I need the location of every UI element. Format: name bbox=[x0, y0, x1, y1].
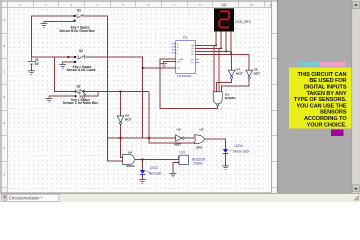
svg-text:Circuitsimulation *: Circuitsimulation * bbox=[9, 196, 43, 201]
svg-text:NOT: NOT bbox=[125, 117, 132, 121]
wire U1 output to U3 load bbox=[160, 59, 218, 108]
wire QA to display pin 1 bbox=[215, 32, 217, 46]
NAND gate U1 NAND4 bbox=[213, 92, 236, 106]
NOT gate U6 bbox=[117, 114, 131, 125]
wire QD to U8 input bbox=[248, 54, 250, 70]
wire buzzer to ground bbox=[173, 162, 179, 173]
svg-text:S3: S3 bbox=[77, 85, 81, 89]
wire QA to U1 input 1 bbox=[213, 45, 215, 92]
mouse cursor over S3 bbox=[80, 89, 86, 98]
wire U3 QC row bbox=[195, 50, 231, 52]
wire QB to U1 input 3 bbox=[218, 48, 220, 92]
node QC pin tee bbox=[225, 51, 227, 53]
svg-text:LS1: LS1 bbox=[180, 151, 186, 155]
ground S3 bbox=[46, 96, 53, 102]
svg-text:~CO: ~CO bbox=[190, 62, 195, 64]
AND gate U4 AND2 bbox=[123, 151, 135, 168]
ground LED4 bbox=[222, 166, 229, 170]
svg-text:C: C bbox=[3, 71, 5, 74]
switch S3 bbox=[63, 85, 98, 105]
junction dots bbox=[67, 45, 232, 161]
magenta highlight bar bbox=[331, 130, 344, 137]
wire U4 output to buzzer bbox=[135, 158, 179, 160]
wire bus bbox=[108, 137, 176, 139]
NOT gate U7 bbox=[228, 68, 242, 79]
wire bus to U4 input A bbox=[121, 138, 123, 158]
node QB pin tee bbox=[220, 48, 222, 50]
ruler bands (decorative frame) bbox=[1, 1, 277, 193]
svg-text:U4: U4 bbox=[128, 151, 132, 155]
wire V1 to S2 bbox=[32, 56, 75, 58]
svg-text:U5: U5 bbox=[177, 128, 181, 132]
wire S1 to U4 input B bbox=[84, 16, 123, 161]
wire QC to display pin 3 bbox=[225, 32, 227, 52]
ground U3 clear bbox=[161, 63, 167, 66]
svg-text:G: G bbox=[3, 173, 5, 176]
svg-text:NAND4: NAND4 bbox=[225, 96, 236, 100]
svg-text:YOU CAN USE THE: YOU CAN USE THE bbox=[296, 103, 346, 109]
wire LED4 to ground bbox=[225, 154, 227, 166]
ground LED3 bbox=[139, 180, 146, 184]
svg-text:Sensor A for Count: Sensor A for Count bbox=[67, 68, 97, 72]
wire QC to U7 input bbox=[231, 51, 233, 70]
wire OR2 output to LED4 bbox=[204, 139, 226, 149]
wire node to LED3 bbox=[142, 159, 144, 169]
wire S3 output bbox=[82, 91, 149, 93]
svg-text:SENSORS: SENSORS bbox=[320, 110, 347, 116]
svg-text:200Hz: 200Hz bbox=[193, 162, 203, 166]
svg-text:U2: U2 bbox=[222, 3, 226, 7]
svg-text:~BO: ~BO bbox=[190, 59, 195, 61]
svg-text:BE USED FOR: BE USED FOR bbox=[309, 78, 346, 84]
wire V1 to S1 bbox=[32, 16, 75, 57]
node U4 output / LED3 bbox=[142, 158, 144, 160]
wire S2 lower contact to ground bbox=[63, 61, 74, 63]
LED4 green LED bbox=[223, 144, 250, 154]
wire U3 QA row bbox=[195, 44, 216, 46]
svg-text:74LS193D: 74LS193D bbox=[177, 74, 192, 78]
node QD pin tee bbox=[230, 54, 232, 56]
node QA pin tee bbox=[215, 45, 217, 47]
OR gate U2 OR2 bbox=[194, 128, 204, 150]
node U6 output on bus bbox=[120, 137, 122, 139]
svg-text:S1: S1 bbox=[77, 9, 81, 13]
counter IC U3 74LS193D bbox=[172, 36, 200, 78]
svg-text:THIS CIRCUIT CAN: THIS CIRCUIT CAN bbox=[297, 72, 346, 78]
wire U8 output to U1 input 4 bbox=[222, 79, 250, 92]
svg-text:S2: S2 bbox=[79, 49, 83, 53]
wire LED3 to ground bbox=[142, 175, 144, 180]
svg-text:YOUR CHOICE.: YOUR CHOICE. bbox=[307, 122, 347, 128]
wire U6 output to bus bbox=[120, 124, 122, 138]
battery V1 bbox=[28, 57, 36, 64]
wire U5 output to OR2 input A bbox=[184, 137, 195, 139]
ground V1 bbox=[28, 71, 35, 75]
svg-text:TAKEN BY ANY: TAKEN BY ANY bbox=[306, 91, 346, 97]
node clock branch bbox=[142, 67, 144, 69]
node S3/U6 junction bbox=[120, 91, 122, 93]
svg-text:CLR: CLR bbox=[177, 61, 182, 63]
wire S3 to U6 input bbox=[120, 92, 122, 116]
ground S1 bbox=[41, 21, 48, 27]
svg-text:OR2: OR2 bbox=[196, 145, 203, 149]
svg-text:AND2: AND2 bbox=[126, 164, 135, 168]
wire S1 lower contact to ground bbox=[44, 20, 74, 22]
LED3 red LED bbox=[140, 166, 163, 175]
svg-text:NOT: NOT bbox=[254, 71, 261, 75]
NOT gate U8 bbox=[246, 68, 260, 79]
wire S3 lower contact to ground bbox=[49, 95, 74, 97]
wire U7 output to U1 input 2 bbox=[217, 79, 232, 92]
wire QD to display pin 4 bbox=[230, 32, 232, 55]
svg-text:LED4: LED4 bbox=[235, 144, 243, 148]
svg-text:NOT: NOT bbox=[236, 71, 243, 75]
svg-text:V1: V1 bbox=[35, 58, 39, 62]
switch S1 bbox=[59, 9, 94, 33]
pink highlight bar bbox=[319, 62, 346, 67]
svg-text:TYPE OF SENSORS.: TYPE OF SENSORS. bbox=[294, 97, 347, 103]
NOT gate U5 bbox=[175, 128, 184, 147]
wire S3 lower contact loop bbox=[84, 92, 98, 97]
wire S2 to U3 clock bbox=[86, 57, 143, 138]
wire bus to OR2 input B bbox=[149, 138, 195, 143]
wire clock branch to U3 bbox=[143, 67, 176, 69]
svg-text:U2: U2 bbox=[200, 128, 204, 132]
svg-text:Red LED: Red LED bbox=[149, 171, 163, 175]
svg-text:U3: U3 bbox=[183, 36, 187, 40]
wire U3 QB row bbox=[195, 47, 221, 49]
wire V1 negative lead bbox=[31, 64, 33, 71]
svg-text:Sensor C for fallen Box: Sensor C for fallen Box bbox=[63, 101, 98, 105]
wire S3 to bus bbox=[148, 92, 150, 139]
svg-text:NOT: NOT bbox=[175, 142, 182, 146]
comment note bbox=[289, 68, 353, 129]
svg-text:DCD_HEX: DCD_HEX bbox=[235, 20, 252, 24]
switch S2 bbox=[67, 49, 97, 72]
buzzer LS1 bbox=[178, 151, 205, 166]
svg-text:DIGITAL INPUTS: DIGITAL INPUTS bbox=[304, 85, 347, 91]
cyan highlight bar bbox=[298, 62, 319, 67]
ground buzzer bbox=[170, 173, 177, 177]
svg-text:ACCORDING TO: ACCORDING TO bbox=[304, 116, 347, 122]
wire U3 clear to ground bbox=[164, 61, 176, 63]
svg-text:D: D bbox=[3, 96, 5, 99]
svg-text:LED3: LED3 bbox=[150, 166, 158, 170]
seven-segment display U2 DCD_HEX bbox=[214, 3, 252, 31]
ground S2 bbox=[59, 62, 66, 68]
svg-text:Green LED: Green LED bbox=[233, 149, 250, 153]
wire QB to display pin 2 bbox=[220, 32, 222, 49]
node S3 on bus bbox=[148, 137, 150, 139]
wire node to S3 bbox=[55, 57, 75, 92]
svg-text:Sensor B for Good Box: Sensor B for Good Box bbox=[59, 29, 94, 33]
node V1/S2/S3 junction bbox=[67, 56, 69, 58]
wire U3 QD row bbox=[195, 53, 249, 55]
